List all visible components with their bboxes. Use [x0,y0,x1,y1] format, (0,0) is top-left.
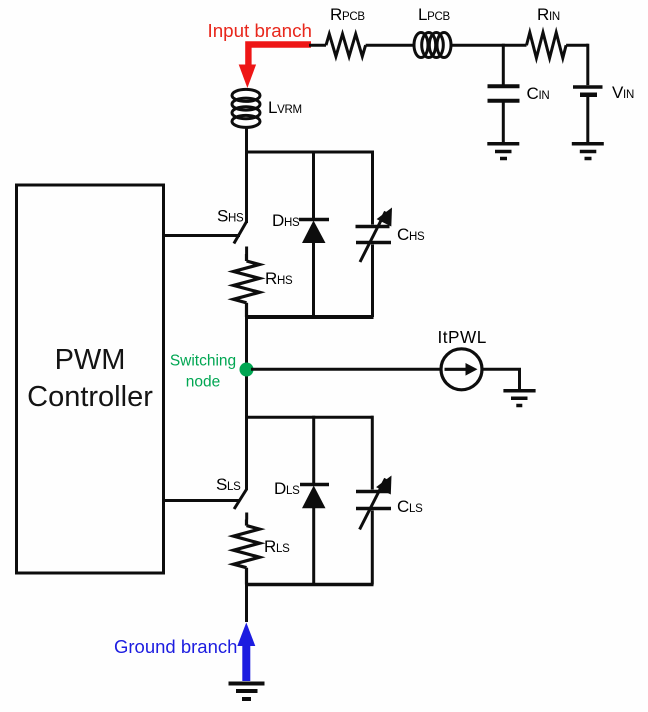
current source ItPWL [441,349,482,390]
resistor RIN [527,33,567,59]
diode DLS [300,416,329,585]
wire: LS block bottom rail [245,583,374,587]
capacitor CLS (variable) [356,416,392,585]
wire: PWM to SLS gate [164,499,241,502]
diode DHS [299,151,329,318]
label: PWM Controller [27,344,153,413]
wire: HS rail to switch SHS [245,152,248,223]
wire: HS bottom rail to switching node [245,317,248,370]
wire: LS block top rail [245,416,374,419]
wire: red bar to RPCB [309,44,326,47]
wire: HS block top rail [245,151,374,154]
wire: RPCB to LPCB [366,44,414,47]
switch SHS [234,222,247,254]
wire: PWM to SHS gate [164,234,241,237]
capacitor CHS (variable) [356,151,393,318]
ground: ItPWL ground [503,391,535,406]
wire: LPCB to RIN (through CIN junction) [451,44,527,47]
svg-text:Switching: Switching [170,353,236,370]
wire: RIN to VIN branch [566,44,588,47]
svg-text:Ground branch: Ground branch [114,636,237,657]
inductor LPCB [414,33,451,58]
label: Switching node (green) [170,353,236,391]
wire: LS rail to switch SLS [245,417,248,490]
svg-text:Controller: Controller [27,381,153,413]
resistor RLS [234,520,260,585]
wire: ItPWL to ground [482,369,520,389]
wire: switching node to ItPWL [251,368,441,371]
ground: VIN ground [572,144,604,159]
battery VIN [573,44,603,142]
inductor LVRM [232,89,260,127]
svg-text:Input branch: Input branch [208,20,312,41]
svg-text:PWM: PWM [55,344,126,376]
wire: HS block bottom rail [245,315,374,319]
node: switching node (green dot) [240,363,254,377]
resistor RPCB [326,34,366,56]
svg-text:ItPWL: ItPWL [438,327,487,347]
capacitor CIN [488,44,520,142]
switch SLS [234,489,247,520]
ground: CIN ground [487,144,519,159]
PWM Controller block [17,185,164,573]
ground: main ground (bottom) [229,684,265,700]
wire: switching node down to LS rail [245,370,248,418]
svg-text:node: node [186,374,220,391]
wire: blue ground-branch arrow [237,623,255,682]
wire: LS bottom rail to ground branch [245,585,248,623]
resistor RHS [234,254,260,317]
wire: red input-branch arrow [239,45,311,89]
wire: LVRM to HS rail junction [245,127,248,154]
